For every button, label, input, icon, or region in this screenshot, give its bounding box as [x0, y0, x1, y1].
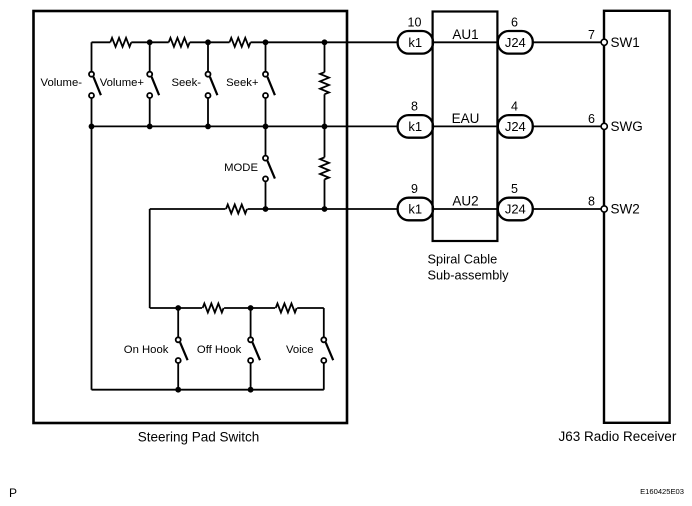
svg-text:P: P [9, 486, 17, 500]
svg-text:AU2: AU2 [452, 194, 478, 209]
svg-text:Seek-: Seek- [171, 77, 201, 89]
svg-text:k1: k1 [408, 202, 422, 217]
svg-text:SWG: SWG [611, 119, 643, 134]
svg-text:J63 Radio Receiver: J63 Radio Receiver [559, 429, 677, 444]
svg-text:Off Hook: Off Hook [197, 344, 242, 356]
svg-text:Steering Pad Switch: Steering Pad Switch [138, 430, 260, 445]
svg-text:EAU: EAU [452, 111, 480, 126]
svg-text:J24: J24 [505, 35, 526, 50]
svg-text:On Hook: On Hook [124, 344, 169, 356]
svg-text:Voice: Voice [286, 344, 314, 356]
svg-text:Sub-assembly: Sub-assembly [428, 268, 510, 283]
svg-text:10: 10 [408, 16, 422, 30]
svg-text:5: 5 [511, 182, 518, 196]
svg-text:J24: J24 [505, 119, 526, 134]
svg-text:J24: J24 [505, 202, 526, 217]
svg-text:Volume+: Volume+ [100, 77, 145, 89]
svg-text:SW2: SW2 [611, 202, 640, 217]
svg-text:E160425E03: E160425E03 [640, 487, 684, 496]
svg-text:8: 8 [411, 100, 418, 114]
svg-text:k1: k1 [408, 119, 422, 134]
svg-text:SW1: SW1 [611, 35, 640, 50]
svg-text:k1: k1 [408, 35, 422, 50]
svg-text:MODE: MODE [224, 162, 258, 174]
svg-text:Spiral Cable: Spiral Cable [428, 252, 498, 267]
svg-text:4: 4 [511, 100, 518, 114]
svg-text:7: 7 [588, 28, 595, 42]
svg-text:AU1: AU1 [452, 27, 478, 42]
svg-text:8: 8 [588, 195, 595, 209]
svg-text:Seek+: Seek+ [226, 77, 259, 89]
svg-text:6: 6 [588, 112, 595, 126]
svg-text:Volume-: Volume- [41, 77, 83, 89]
svg-text:6: 6 [511, 16, 518, 30]
svg-text:9: 9 [411, 182, 418, 196]
